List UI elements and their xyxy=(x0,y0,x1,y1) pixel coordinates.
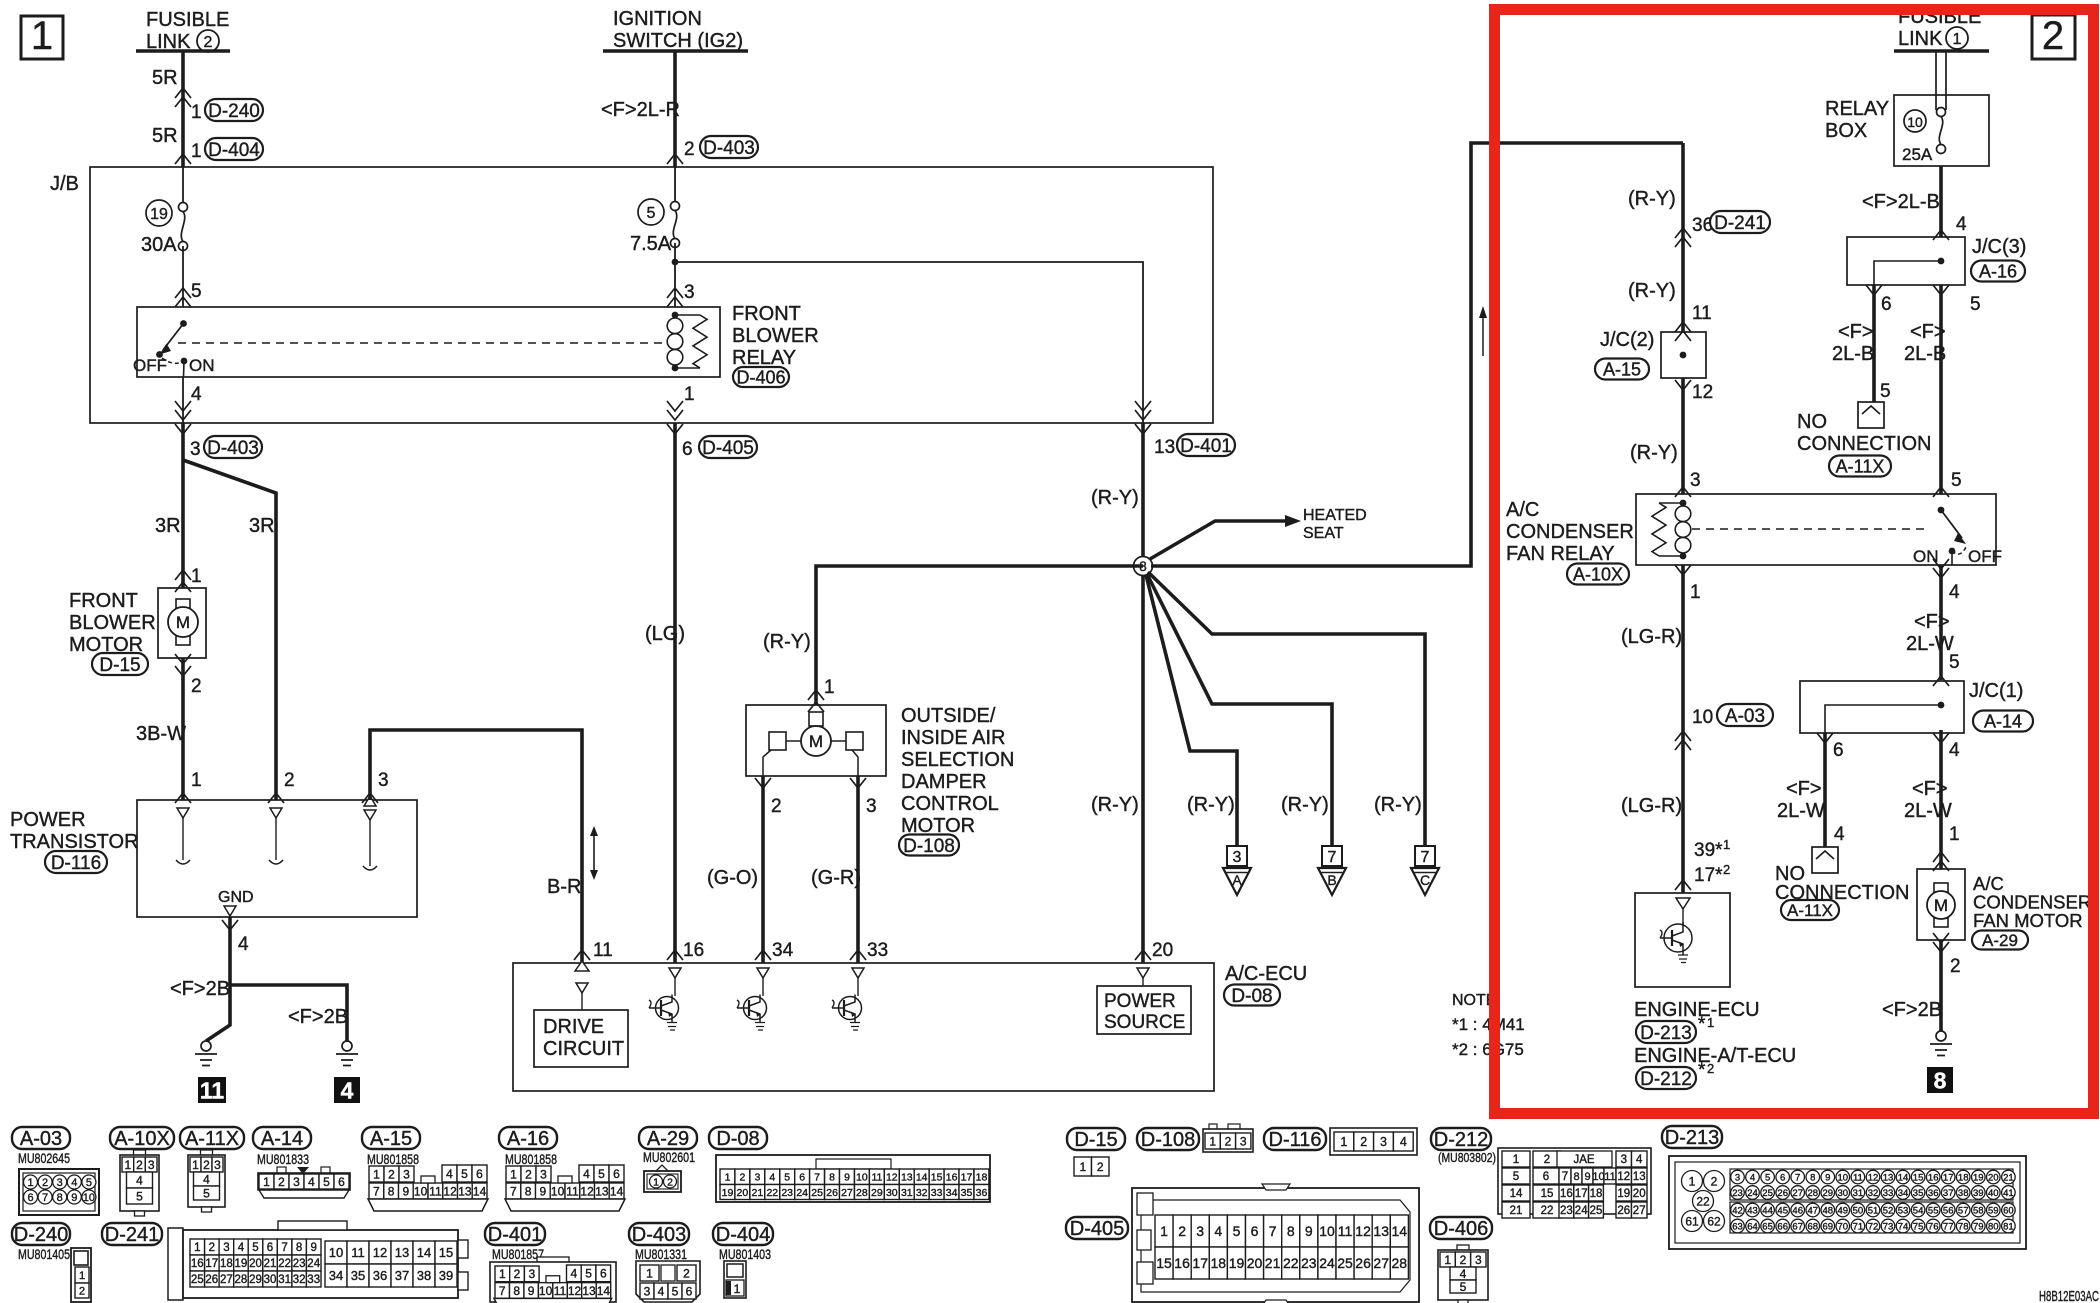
svg-text:1: 1 xyxy=(263,1175,270,1189)
svg-text:3: 3 xyxy=(148,1158,155,1172)
svg-text:A: A xyxy=(1232,872,1242,888)
svg-text:*2 : 6G75: *2 : 6G75 xyxy=(1452,1040,1524,1059)
svg-text:24: 24 xyxy=(1319,1255,1335,1271)
svg-text:9: 9 xyxy=(310,1242,316,1254)
svg-text:3R: 3R xyxy=(155,515,181,537)
svg-text:1: 1 xyxy=(194,1242,200,1254)
svg-text:1: 1 xyxy=(192,1158,199,1172)
svg-text:11: 11 xyxy=(593,940,613,961)
connector D-403 pinout xyxy=(629,1223,700,1302)
svg-text:11: 11 xyxy=(1604,1171,1615,1183)
svg-text:40: 40 xyxy=(1988,1188,1999,1199)
pin 20 A/C-ECU xyxy=(1135,940,1173,961)
svg-text:12: 12 xyxy=(1868,1172,1879,1183)
svg-text:16: 16 xyxy=(1174,1255,1190,1271)
svg-text:5: 5 xyxy=(252,1242,258,1254)
junction connector J/C1 A-14 box xyxy=(1800,681,1964,733)
svg-text:32: 32 xyxy=(1868,1188,1879,1199)
svg-text:9: 9 xyxy=(403,1184,410,1198)
connector D-240 pinout xyxy=(12,1223,91,1302)
svg-text:TRANSISTOR: TRANSISTOR xyxy=(10,831,139,853)
svg-text:4: 4 xyxy=(1214,1223,1222,1239)
svg-text:34: 34 xyxy=(772,940,794,961)
svg-text:3: 3 xyxy=(684,282,695,303)
svg-text:2: 2 xyxy=(1723,862,1730,877)
svg-text:22: 22 xyxy=(766,1187,778,1199)
connector label A-29 xyxy=(1972,931,2028,951)
svg-text:(R-Y): (R-Y) xyxy=(1374,794,1422,816)
svg-text:6: 6 xyxy=(1251,1223,1259,1239)
no connection symbol 1 xyxy=(1858,402,1884,428)
svg-text:6: 6 xyxy=(27,1192,33,1204)
connector D-401 pinout xyxy=(485,1223,616,1303)
svg-text:D-108: D-108 xyxy=(903,836,955,857)
label 39*1 17*2 xyxy=(1694,837,1730,886)
wire 3R branch to power transistor xyxy=(183,460,276,800)
svg-text:73: 73 xyxy=(1883,1221,1894,1232)
svg-text:55: 55 xyxy=(1928,1205,1939,1216)
damper motor name xyxy=(901,705,1014,837)
A/C-ECU transistor 2 xyxy=(737,968,769,1030)
chevrons LG-R xyxy=(1675,731,1691,750)
svg-text:SELECTION: SELECTION xyxy=(901,749,1014,771)
wire F2L-W from fan relay xyxy=(1939,565,1943,680)
svg-text:D-241: D-241 xyxy=(105,1224,159,1246)
svg-text:10: 10 xyxy=(1907,114,1923,130)
svg-text:C: C xyxy=(1420,872,1430,888)
svg-text:28: 28 xyxy=(235,1274,248,1286)
svg-text:9: 9 xyxy=(1584,1171,1590,1183)
power transistor box D-116 xyxy=(137,800,417,917)
svg-text:24: 24 xyxy=(1575,1205,1588,1217)
svg-text:3: 3 xyxy=(190,439,201,460)
svg-text:34: 34 xyxy=(329,1268,343,1283)
svg-text:17: 17 xyxy=(961,1172,973,1184)
svg-text:A-16: A-16 xyxy=(507,1128,549,1150)
svg-text:23: 23 xyxy=(1732,1188,1743,1199)
label R-Y branch C xyxy=(1374,794,1422,816)
svg-text:34: 34 xyxy=(1898,1188,1909,1199)
wire F2L-R from ignition switch xyxy=(667,51,683,167)
svg-text:18: 18 xyxy=(1590,1188,1603,1200)
pin 34 A/C-ECU xyxy=(755,940,794,961)
svg-text:14: 14 xyxy=(417,1245,431,1260)
svg-text:2: 2 xyxy=(667,1176,673,1188)
connector D-404 pinout xyxy=(713,1223,773,1298)
svg-text:ON: ON xyxy=(1913,547,1939,566)
svg-text:DAMPER: DAMPER xyxy=(901,771,987,793)
wire R-Y chain from node 8 loop xyxy=(1675,143,1691,332)
svg-text:26: 26 xyxy=(205,1274,218,1286)
svg-text:13: 13 xyxy=(1883,1172,1894,1183)
svg-text:7: 7 xyxy=(510,1184,517,1198)
svg-text:2: 2 xyxy=(1178,1223,1186,1239)
wire R-Y to damper motor xyxy=(816,566,1143,705)
svg-text:SEAT: SEAT xyxy=(1303,525,1344,542)
svg-text:16: 16 xyxy=(683,940,704,961)
svg-text:1: 1 xyxy=(510,1167,517,1181)
svg-text:14: 14 xyxy=(1392,1223,1408,1239)
svg-text:16: 16 xyxy=(946,1172,958,1184)
svg-text:15: 15 xyxy=(1156,1255,1172,1271)
svg-text:<F>: <F> xyxy=(1914,611,1950,633)
svg-text:13: 13 xyxy=(458,1184,472,1198)
svg-text:MU801833: MU801833 xyxy=(257,1152,309,1167)
svg-text:31: 31 xyxy=(278,1274,291,1286)
svg-text:2: 2 xyxy=(1950,956,1961,977)
fuse 10 25A in relay box xyxy=(1902,108,1946,165)
svg-text:29: 29 xyxy=(1823,1188,1834,1199)
svg-text:77: 77 xyxy=(1943,1221,1954,1232)
svg-text:4: 4 xyxy=(1949,740,1960,761)
svg-text:17: 17 xyxy=(205,1258,218,1270)
svg-text:1: 1 xyxy=(191,141,202,162)
label G-R xyxy=(811,867,861,889)
connector A-16 pinout xyxy=(499,1127,625,1211)
svg-text:2: 2 xyxy=(278,1175,285,1189)
svg-text:5: 5 xyxy=(598,1167,605,1181)
svg-text:MU801858: MU801858 xyxy=(367,1152,419,1167)
svg-text:25A: 25A xyxy=(1902,145,1933,164)
svg-text:62: 62 xyxy=(1707,1214,1721,1228)
svg-text:7.5A: 7.5A xyxy=(630,233,672,255)
svg-text:3: 3 xyxy=(1240,1134,1247,1148)
label LG-R lower xyxy=(1621,795,1682,817)
svg-text:7: 7 xyxy=(1328,849,1337,866)
svg-text:68: 68 xyxy=(1808,1221,1819,1232)
wire F2B to ground 4 xyxy=(230,985,347,1041)
svg-text:MU801405: MU801405 xyxy=(18,1247,70,1262)
svg-text:CIRCUIT: CIRCUIT xyxy=(543,1038,624,1060)
svg-text:22: 22 xyxy=(1696,1194,1710,1208)
pin 2 damper motor xyxy=(755,778,782,817)
svg-text:5: 5 xyxy=(323,1175,330,1189)
label F2L-W left xyxy=(1777,778,1825,822)
wire 5R from fusible link 2 xyxy=(175,51,191,167)
svg-text:1: 1 xyxy=(191,770,202,791)
svg-text:12: 12 xyxy=(1692,382,1713,403)
svg-text:5: 5 xyxy=(1949,652,1960,673)
svg-text:M: M xyxy=(809,732,823,751)
svg-text:38: 38 xyxy=(417,1268,431,1283)
svg-text:13: 13 xyxy=(901,1172,913,1184)
svg-text:OFF: OFF xyxy=(133,356,167,375)
front blower relay box D-406 xyxy=(137,307,720,377)
svg-text:6: 6 xyxy=(338,1175,345,1189)
pin 10 connector A-03 xyxy=(1692,704,1773,728)
svg-text:11: 11 xyxy=(1853,1172,1863,1183)
svg-text:3: 3 xyxy=(1233,849,1242,866)
connector label D-406 xyxy=(733,367,789,388)
fusible link 1 label xyxy=(1898,6,1981,50)
svg-text:8: 8 xyxy=(829,1172,835,1184)
svg-text:36: 36 xyxy=(373,1268,387,1283)
svg-text:1: 1 xyxy=(124,1158,131,1172)
section number 1 box xyxy=(21,14,63,59)
label R-Y damper xyxy=(763,631,811,653)
svg-text:8: 8 xyxy=(513,1284,520,1298)
svg-text:14: 14 xyxy=(597,1284,611,1298)
svg-text:2: 2 xyxy=(1460,1253,1467,1267)
pin 13 connector D-401 xyxy=(1135,424,1235,458)
A/C-ECU transistor 1 xyxy=(649,968,681,1030)
pin 5 fan relay xyxy=(1951,470,1962,491)
svg-text:2: 2 xyxy=(1544,1154,1550,1166)
svg-text:15: 15 xyxy=(1913,1172,1924,1183)
pin 3 connector D-403 xyxy=(175,424,262,460)
connector label D-108 xyxy=(899,835,959,857)
svg-text:POWER: POWER xyxy=(1104,991,1176,1012)
svg-text:3: 3 xyxy=(403,1167,410,1181)
svg-text:(R-Y): (R-Y) xyxy=(763,631,811,653)
svg-text:5R: 5R xyxy=(152,125,178,147)
svg-text:D-406: D-406 xyxy=(1434,1218,1488,1240)
label 3B-W xyxy=(136,723,186,745)
svg-text:<F>: <F> xyxy=(1910,321,1946,343)
connector label A-10X xyxy=(1567,564,1629,585)
wire F2L-W right branch xyxy=(1939,730,1943,869)
pin 2 under fan motor xyxy=(1933,933,1961,977)
pin 1 front blower motor xyxy=(175,566,202,592)
connector D-108 pinout xyxy=(1137,1124,1253,1152)
svg-text:(R-Y): (R-Y) xyxy=(1091,794,1139,816)
svg-text:48: 48 xyxy=(1823,1205,1834,1216)
node 8 fan wire to B xyxy=(1147,574,1332,846)
junction block J/B box xyxy=(90,167,1213,423)
svg-text:2: 2 xyxy=(684,139,695,160)
no connection label 2 xyxy=(1775,863,1909,920)
svg-text:67: 67 xyxy=(1792,1221,1803,1232)
svg-text:5: 5 xyxy=(461,1167,468,1181)
svg-text:27: 27 xyxy=(841,1187,853,1199)
svg-text:3: 3 xyxy=(540,1167,547,1181)
connector A-03 pinout xyxy=(12,1127,99,1215)
svg-text:D-116: D-116 xyxy=(1269,1129,1322,1151)
fuse 19 30A xyxy=(141,167,188,307)
svg-text:5: 5 xyxy=(191,281,202,302)
wire 3R to front blower motor xyxy=(181,423,185,588)
label F2L-R xyxy=(601,99,680,121)
fan relay coil xyxy=(1652,500,1691,560)
svg-text:61: 61 xyxy=(1685,1214,1699,1228)
svg-text:A/C: A/C xyxy=(1506,499,1539,521)
pin 1 under relay coil xyxy=(667,384,695,420)
svg-text:25: 25 xyxy=(191,1274,204,1286)
connector label D-213 star1 xyxy=(1636,1014,1714,1044)
svg-text:2: 2 xyxy=(2042,14,2064,58)
svg-text:33: 33 xyxy=(931,1187,943,1199)
svg-text:5: 5 xyxy=(1765,1172,1770,1183)
connector A-10X pinout xyxy=(110,1127,174,1216)
svg-text:13: 13 xyxy=(582,1284,596,1298)
svg-text:<F>2B: <F>2B xyxy=(170,978,230,1000)
svg-text:30: 30 xyxy=(1838,1188,1849,1199)
A/C condenser fan motor A-29 xyxy=(1917,869,1965,940)
svg-text:31: 31 xyxy=(1853,1188,1864,1199)
svg-text:4: 4 xyxy=(341,1077,354,1103)
connector D-212 pinout xyxy=(1431,1128,1651,1218)
svg-text:35: 35 xyxy=(961,1187,973,1199)
svg-text:FUSIBLE: FUSIBLE xyxy=(146,9,229,31)
svg-text:17: 17 xyxy=(1192,1255,1208,1271)
svg-text:15: 15 xyxy=(439,1245,453,1260)
svg-text:2: 2 xyxy=(42,1177,48,1189)
svg-text:1: 1 xyxy=(653,1176,659,1188)
svg-text:16: 16 xyxy=(191,1258,204,1270)
svg-text:5: 5 xyxy=(672,1284,679,1298)
svg-text:ENGINE-ECU: ENGINE-ECU xyxy=(1634,999,1760,1021)
svg-text:(LG): (LG) xyxy=(645,623,685,645)
svg-text:28: 28 xyxy=(1392,1255,1408,1271)
svg-text:H8B12E03AC: H8B12E03AC xyxy=(2039,1288,2099,1303)
svg-text:25: 25 xyxy=(811,1187,823,1199)
svg-text:A-14: A-14 xyxy=(261,1128,303,1150)
power source block xyxy=(1097,968,1191,1034)
svg-text:2L-W: 2L-W xyxy=(1777,800,1825,822)
svg-text:52: 52 xyxy=(1883,1205,1894,1216)
label J/B xyxy=(50,173,79,195)
svg-text:3: 3 xyxy=(1196,1223,1204,1239)
drive circuit block xyxy=(534,961,628,1067)
node 8 junction xyxy=(1134,557,1153,576)
svg-text:75: 75 xyxy=(1913,1221,1924,1232)
svg-text:76: 76 xyxy=(1928,1221,1939,1232)
svg-text:2: 2 xyxy=(1707,1061,1714,1076)
svg-text:1: 1 xyxy=(1723,837,1730,852)
svg-text:69: 69 xyxy=(1823,1221,1834,1232)
A/C-ECU transistor 3 xyxy=(832,968,864,1030)
svg-text:FAN MOTOR: FAN MOTOR xyxy=(1973,910,2083,931)
svg-text:5R: 5R xyxy=(152,67,178,89)
svg-text:1: 1 xyxy=(1340,1135,1347,1149)
svg-text:50: 50 xyxy=(1853,1205,1864,1216)
svg-text:7: 7 xyxy=(42,1192,48,1204)
svg-text:MU801857: MU801857 xyxy=(492,1247,544,1262)
svg-text:1: 1 xyxy=(646,1266,653,1280)
svg-text:1: 1 xyxy=(191,102,202,123)
svg-text:6: 6 xyxy=(600,1267,607,1281)
label F2B right xyxy=(288,1006,348,1028)
terminal 7 arrow C xyxy=(1411,846,1439,895)
svg-text:(LG-R): (LG-R) xyxy=(1621,626,1682,648)
svg-text:10: 10 xyxy=(1838,1172,1849,1183)
svg-text:A-11X: A-11X xyxy=(185,1128,239,1150)
label R-Y trunk upper xyxy=(1091,487,1139,509)
svg-text:D-213: D-213 xyxy=(1640,1023,1692,1044)
label F2L-W right xyxy=(1904,778,1952,822)
svg-text:6: 6 xyxy=(476,1167,483,1181)
svg-text:4: 4 xyxy=(136,1173,143,1187)
pin 16 A/C-ECU xyxy=(667,940,704,961)
svg-text:M: M xyxy=(1934,896,1948,915)
svg-text:D-405: D-405 xyxy=(1070,1218,1124,1240)
svg-text:D-116: D-116 xyxy=(51,853,101,874)
svg-text:D-401: D-401 xyxy=(488,1224,542,1246)
svg-text:1: 1 xyxy=(79,1270,85,1282)
wire heated seat xyxy=(1150,515,1301,559)
wire node 8 to A/C condenser fan circuit xyxy=(1151,143,1683,566)
wire F2L-B from relay box xyxy=(1933,166,1949,240)
node 8 fan wire to A xyxy=(1146,575,1237,846)
svg-text:1: 1 xyxy=(734,1282,741,1296)
svg-text:27: 27 xyxy=(1792,1188,1803,1199)
pin 4 under JC1 xyxy=(1933,733,1960,761)
svg-text:11: 11 xyxy=(200,1077,225,1103)
svg-text:A-10X: A-10X xyxy=(1573,565,1623,585)
svg-text:<F>2B: <F>2B xyxy=(288,1006,348,1028)
label R-Y trunk lower xyxy=(1091,794,1139,816)
svg-text:(MU803802): (MU803802) xyxy=(1438,1150,1496,1165)
svg-text:1: 1 xyxy=(373,1167,380,1181)
svg-text:22: 22 xyxy=(278,1258,291,1270)
svg-text:72: 72 xyxy=(1868,1221,1879,1232)
label F2L-B left xyxy=(1832,321,1874,365)
svg-text:(R-Y): (R-Y) xyxy=(1187,794,1235,816)
svg-text:1: 1 xyxy=(191,566,202,587)
svg-text:47: 47 xyxy=(1808,1205,1819,1216)
engine ECU name xyxy=(1634,999,1760,1021)
svg-text:30A: 30A xyxy=(141,234,177,256)
svg-text:26: 26 xyxy=(1777,1188,1788,1199)
svg-text:2L-B: 2L-B xyxy=(1904,343,1946,365)
svg-text:59: 59 xyxy=(1988,1205,1999,1216)
svg-text:A-29: A-29 xyxy=(1982,931,2018,950)
svg-text:2: 2 xyxy=(79,1286,85,1298)
connector label D-15 xyxy=(92,653,148,676)
outside inside air selection damper control motor D-108 xyxy=(746,705,886,776)
svg-text:NO: NO xyxy=(1797,411,1827,433)
svg-text:2: 2 xyxy=(204,34,213,51)
fusible link 2 bus bar xyxy=(136,49,230,53)
svg-text:MU801858: MU801858 xyxy=(505,1152,557,1167)
svg-text:1: 1 xyxy=(725,1172,731,1184)
connector label D-08 xyxy=(1224,985,1280,1007)
svg-text:3: 3 xyxy=(293,1175,300,1189)
svg-text:9: 9 xyxy=(1825,1172,1830,1183)
connector D-08 pinout xyxy=(709,1127,990,1202)
svg-text:2: 2 xyxy=(1097,1160,1104,1174)
svg-text:21: 21 xyxy=(1265,1255,1281,1271)
svg-text:4: 4 xyxy=(571,1267,578,1281)
svg-text:2: 2 xyxy=(284,770,295,791)
front blower relay OFF ON labels xyxy=(133,356,215,375)
svg-text:7: 7 xyxy=(281,1242,287,1254)
pin 5 no connection xyxy=(1880,381,1891,402)
junction connector J/C1 name xyxy=(1969,680,2033,732)
junction connector J/C3 A-16 box xyxy=(1847,237,1965,285)
svg-text:1: 1 xyxy=(1444,1253,1451,1267)
svg-text:29: 29 xyxy=(249,1274,262,1286)
ground 11 xyxy=(195,1041,226,1103)
svg-text:20: 20 xyxy=(737,1187,749,1199)
pin 2 under front blower motor xyxy=(175,654,202,697)
svg-text:CONTROL: CONTROL xyxy=(901,793,999,815)
svg-text:33: 33 xyxy=(1883,1188,1894,1199)
svg-text:28: 28 xyxy=(856,1187,868,1199)
svg-text:27: 27 xyxy=(1633,1205,1646,1217)
svg-text:2: 2 xyxy=(525,1167,532,1181)
svg-text:45: 45 xyxy=(1777,1205,1788,1216)
wire R-Y trunk xyxy=(1141,423,1145,963)
svg-text:23: 23 xyxy=(1301,1255,1317,1271)
svg-text:3: 3 xyxy=(866,796,877,817)
svg-text:5: 5 xyxy=(1460,1280,1467,1294)
wire F2B to ground 8 xyxy=(1939,940,1943,1031)
label B-R xyxy=(547,876,581,898)
label 3R right xyxy=(249,515,275,537)
wire F2B to ground 11 xyxy=(206,985,230,1041)
svg-text:5: 5 xyxy=(585,1267,592,1281)
